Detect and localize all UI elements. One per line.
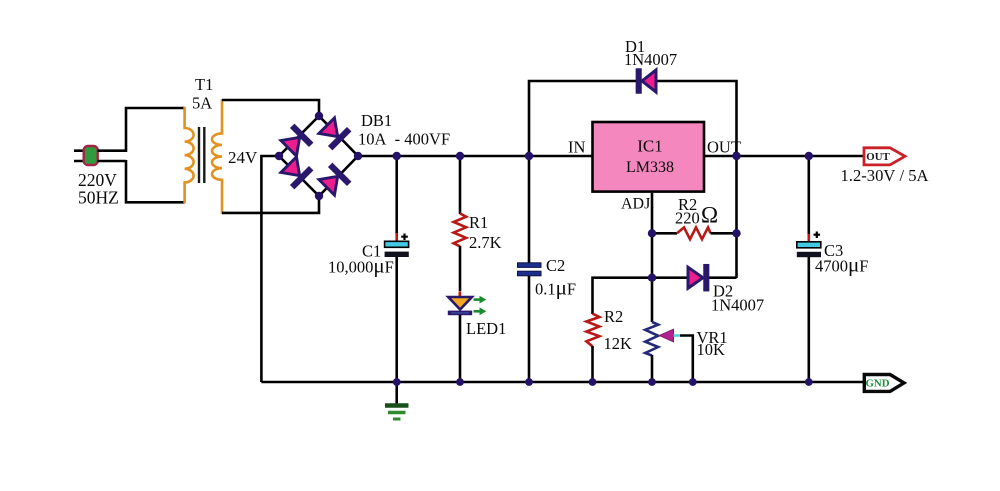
svg-text:10A - 400VF: 10A - 400VF	[358, 130, 450, 149]
wire bridge left vertex to ground riser	[261, 156, 279, 382]
node rail C1	[393, 152, 401, 160]
capacitor C3 branch wire bottom	[807, 257, 810, 382]
LED1 triangle	[448, 297, 472, 310]
diode D1	[636, 69, 656, 93]
node bridge left	[275, 152, 283, 160]
capacitor C1 bottom plate	[385, 252, 409, 257]
node bridge right	[354, 152, 362, 160]
node ground pot	[648, 378, 656, 386]
node ground C3	[805, 378, 813, 386]
AC plug prong wires	[74, 151, 84, 161]
resistor R2 12K zigzag	[586, 314, 599, 347]
D1 feedback loop wire	[529, 81, 737, 156]
node ground LED	[456, 378, 464, 386]
svg-text:10,000μF: 10,000μF	[328, 254, 394, 278]
svg-text:2.7K: 2.7K	[469, 233, 502, 252]
bridge diode bottom-right	[318, 164, 351, 197]
resistor R2 220 right lead	[711, 232, 737, 235]
potentiometer VR1 element	[645, 322, 658, 356]
svg-text:GND: GND	[866, 378, 890, 390]
C3 red positive tick	[807, 234, 810, 242]
capacitor C3 bottom plate	[797, 252, 821, 257]
svg-text:R1: R1	[469, 213, 488, 232]
wire secondary bottom to bridge	[222, 195, 319, 213]
wire R2 12K to ground rail	[591, 346, 594, 382]
node R2 220 left	[648, 229, 656, 237]
svg-text:10K: 10K	[697, 340, 726, 359]
svg-text:24V: 24V	[228, 148, 258, 167]
resistor R1 zigzag	[454, 214, 467, 247]
node ground wiper	[689, 378, 697, 386]
svg-text:OUT: OUT	[866, 151, 890, 163]
LED1 cathode bar	[448, 311, 472, 316]
svg-text:ADJ.: ADJ.	[621, 196, 654, 213]
node rail C3	[805, 152, 813, 160]
capacitor C2 branch wire bottom	[528, 276, 531, 382]
svg-text:Ω: Ω	[701, 203, 718, 228]
node bridge top	[315, 112, 323, 120]
VR1 wiper wire	[680, 336, 693, 383]
GND terminal arrow	[864, 375, 904, 392]
bridge diode top-left	[280, 125, 313, 158]
svg-text:LM338: LM338	[626, 159, 674, 176]
capacitor C2 plate top	[518, 263, 542, 268]
ground symbol stem	[395, 382, 398, 404]
R2 12K branch wire	[593, 278, 653, 314]
svg-text:LED1: LED1	[466, 319, 506, 338]
capacitor C2 branch wire top	[528, 156, 531, 263]
transformer T1 secondary winding	[212, 99, 222, 214]
svg-text:C2: C2	[546, 256, 565, 275]
node D2 arm left	[648, 274, 656, 282]
svg-text:1N4007: 1N4007	[624, 50, 677, 69]
node R2 220 right	[732, 229, 740, 237]
bridge diode bottom-left	[280, 156, 313, 189]
C1 red positive tick	[395, 233, 398, 241]
capacitor C1 branch wire top	[395, 156, 398, 234]
D2 arm wire	[652, 276, 737, 279]
node bridge bottom	[315, 192, 323, 200]
svg-text:DB1: DB1	[361, 111, 392, 130]
C3 plus sign	[814, 232, 821, 239]
svg-text:IN: IN	[568, 138, 585, 157]
resistor R2 220 left lead	[652, 232, 677, 235]
wire LED to ground rail	[459, 315, 462, 382]
svg-text:IC1: IC1	[637, 137, 663, 156]
resistor R1 wire top	[459, 156, 462, 214]
transformer T1 primary winding	[185, 107, 194, 203]
main positive rail	[358, 155, 864, 158]
ground symbol bars	[385, 403, 409, 407]
capacitor C3 branch wire top	[807, 156, 810, 234]
wire pot to ground rail	[651, 355, 654, 382]
svg-text:50HZ: 50HZ	[78, 188, 119, 208]
node rail C2	[525, 152, 533, 160]
wire riser top-left	[126, 108, 185, 152]
transformer core	[199, 127, 204, 183]
svg-text:12K: 12K	[604, 334, 633, 353]
bridge diode top-right	[318, 117, 351, 150]
VR1 wiper arrow	[659, 329, 673, 342]
node rail R1	[456, 152, 464, 160]
svg-text:4700μF: 4700μF	[815, 253, 868, 277]
capacitor C1 top plate	[385, 241, 409, 247]
node ground C1	[393, 378, 401, 386]
capacitor C3 top plate	[797, 242, 821, 248]
svg-text:5A: 5A	[192, 94, 212, 113]
VR1 wiper cyan segment	[674, 334, 682, 337]
ground rail	[261, 381, 864, 384]
OUT pin vertical wire	[735, 156, 738, 278]
LED1 arrow 2	[474, 310, 480, 313]
svg-text:T1: T1	[195, 75, 213, 94]
wire R1 to LED	[459, 246, 462, 291]
capacitor C1 branch wire bottom	[395, 257, 398, 382]
svg-text:1N4007: 1N4007	[711, 296, 764, 315]
node rail OUT pin	[732, 152, 740, 160]
LED red positive tick	[458, 291, 461, 296]
svg-text:1.2-30V / 5A: 1.2-30V / 5A	[841, 166, 929, 185]
node ground R2 12K	[589, 378, 597, 386]
node ground C2	[525, 378, 533, 386]
svg-text:220: 220	[675, 209, 700, 228]
wire plug to riser (top)	[98, 149, 127, 152]
bridge rectifier DB1 diamond	[279, 116, 358, 196]
LED1 arrow 1	[474, 298, 480, 301]
wire riser bottom-left	[126, 160, 185, 202]
svg-text:R2: R2	[604, 307, 623, 326]
diode D2	[688, 265, 709, 291]
wire plug to riser (bottom)	[98, 160, 127, 163]
svg-text:0.1μF: 0.1μF	[535, 276, 576, 300]
C1 plus sign	[401, 234, 408, 241]
ADJ pin wire	[651, 193, 654, 322]
resistor R2 220 zigzag	[677, 227, 711, 239]
OUT terminal arrow	[864, 148, 905, 165]
capacitor C2 plate bottom	[518, 271, 542, 276]
IC1 regulator box	[593, 122, 705, 192]
wire secondary top to bridge	[222, 100, 319, 117]
AC plug body	[84, 146, 98, 165]
